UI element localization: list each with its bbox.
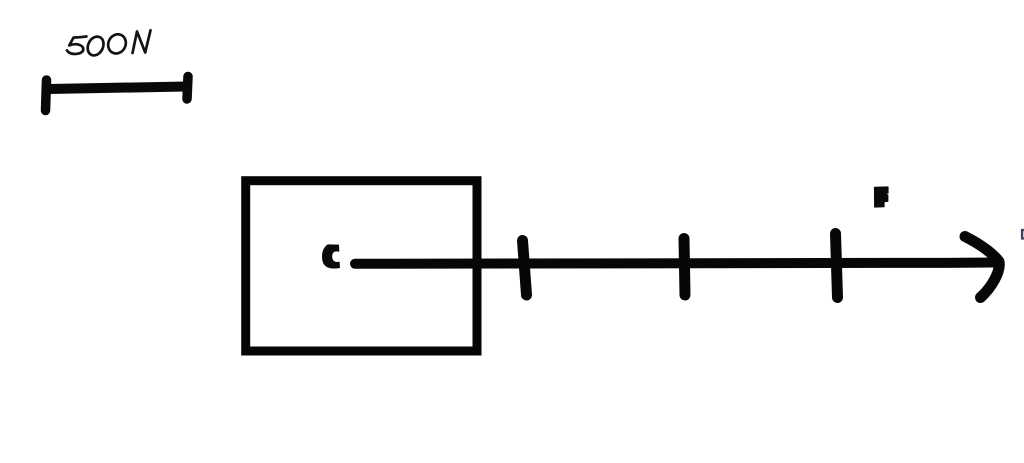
scale bar horizontal bar bbox=[49, 87, 186, 90]
tick mark 1 bbox=[523, 241, 527, 296]
scale bar left end cap bbox=[46, 80, 47, 111]
label F bbox=[875, 187, 889, 207]
small cropped glyph at right edge bbox=[1022, 230, 1024, 239]
tick mark 3 bbox=[836, 234, 838, 298]
box (block) bbox=[246, 181, 477, 351]
arrowhead bbox=[965, 237, 999, 298]
tick mark 2 bbox=[684, 239, 685, 296]
force arrow shaft bbox=[355, 263, 993, 264]
scale bar bbox=[46, 77, 189, 111]
point label C bbox=[322, 244, 340, 268]
scale bar right end cap bbox=[187, 77, 188, 100]
label 500N bbox=[67, 30, 151, 58]
